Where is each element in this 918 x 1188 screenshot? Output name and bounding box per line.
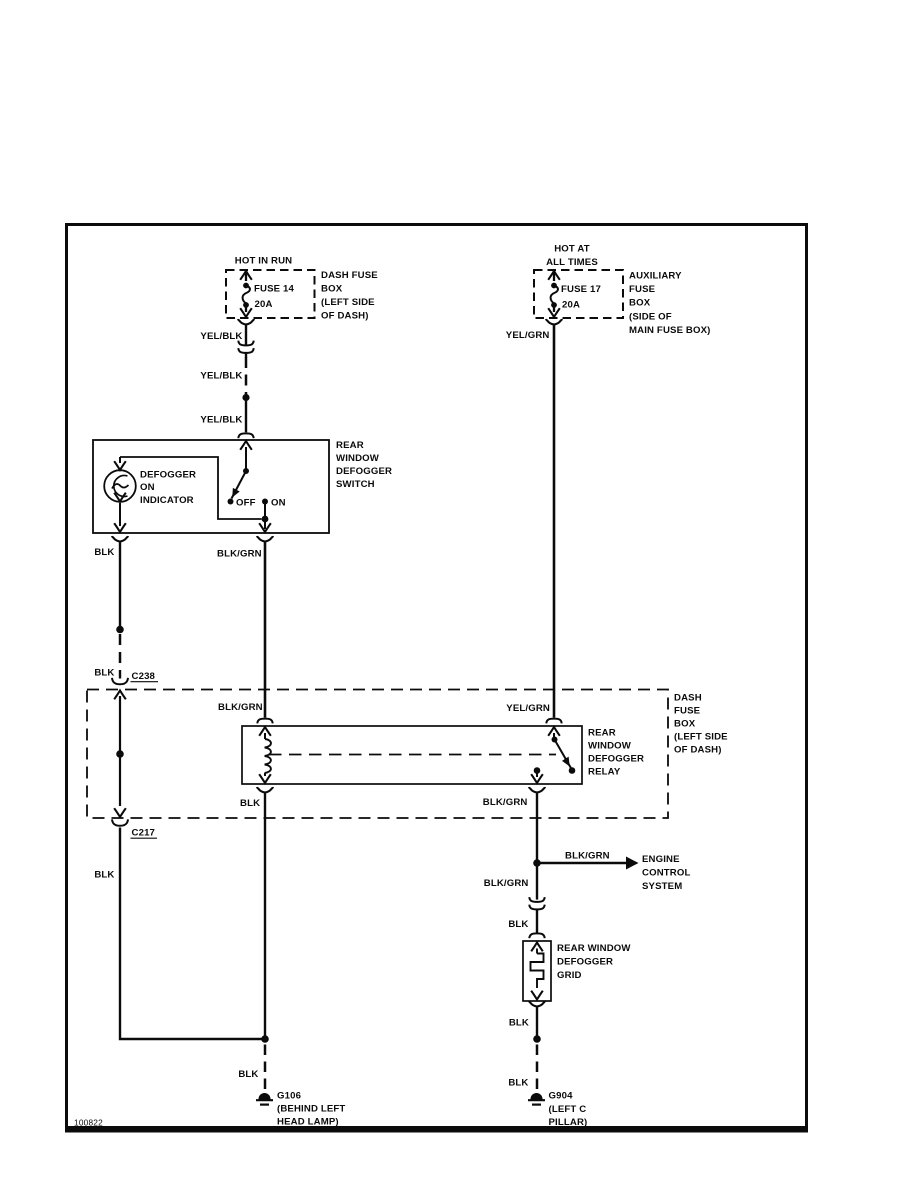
- svg-text:ENGINE: ENGINE: [642, 854, 680, 865]
- svg-text:CONTROL: CONTROL: [642, 868, 690, 879]
- fuse F14 symbol: [240, 271, 252, 317]
- svg-text:YEL/GRN: YEL/GRN: [506, 330, 550, 341]
- svg-text:C217: C217: [132, 828, 156, 839]
- connector at relay box top (switch side): [546, 719, 561, 724]
- wire BLK through dash fuse box: [114, 691, 126, 700]
- svg-text:BLK: BLK: [508, 1078, 528, 1089]
- wire into indicator: [119, 457, 121, 463]
- wire BLK/GRN from switch to relay: [264, 542, 267, 718]
- rear window defogger grid box: [523, 941, 551, 1001]
- wire BLK below grid: [536, 1007, 538, 1037]
- connector below relay (BLK/GRN): [529, 788, 546, 793]
- junction at G904 drop: [533, 1035, 541, 1043]
- svg-text:BLK: BLK: [94, 547, 114, 558]
- relay switch: [548, 727, 560, 736]
- svg-text:(LEFT SIDE: (LEFT SIDE: [321, 297, 375, 308]
- svg-text:DASH FUSE: DASH FUSE: [321, 270, 378, 281]
- fuse F17 symbol: [548, 271, 560, 317]
- svg-text:WINDOW: WINDOW: [588, 741, 632, 752]
- svg-text:C238: C238: [132, 671, 156, 682]
- svg-text:INDICATOR: INDICATOR: [140, 495, 194, 506]
- svg-text:RELAY: RELAY: [588, 767, 621, 778]
- svg-text:SYSTEM: SYSTEM: [642, 881, 682, 892]
- rear window defogger relay box: [242, 726, 582, 784]
- connector C217: [112, 819, 128, 825]
- svg-text:OF DASH): OF DASH): [321, 311, 369, 322]
- svg-text:DEFOGGER: DEFOGGER: [588, 754, 644, 765]
- svg-text:ALL TIMES: ALL TIMES: [546, 257, 598, 268]
- rear window defogger switch box: [93, 440, 329, 533]
- wire BLK to grid: [536, 910, 538, 933]
- svg-text:100822: 100822: [74, 1118, 103, 1128]
- wire YEL/BLK segment 1: [245, 324, 247, 345]
- junction to engine control: [533, 859, 541, 867]
- svg-text:FUSE: FUSE: [674, 706, 701, 717]
- connector below relay (coil BLK): [257, 788, 274, 793]
- svg-text:BOX: BOX: [321, 284, 343, 295]
- dash fuse box (left, dashed outline): [226, 270, 315, 318]
- svg-text:BLK/GRN: BLK/GRN: [217, 549, 262, 560]
- wire switch input arrow: [240, 441, 252, 450]
- connector at relay box top (coil side): [257, 719, 272, 724]
- connector below fuse box: [238, 320, 255, 325]
- svg-text:BOX: BOX: [674, 719, 696, 730]
- svg-text:OFF: OFF: [236, 498, 256, 509]
- svg-text:HOT AT: HOT AT: [554, 244, 590, 255]
- svg-text:BOX: BOX: [629, 298, 651, 309]
- svg-text:SWITCH: SWITCH: [336, 479, 375, 490]
- wire BLK/GRN continues down: [536, 866, 538, 900]
- connector at grid box top: [529, 933, 544, 938]
- wire BLK from relay coil down: [264, 793, 266, 1040]
- svg-text:(BEHIND LEFT: (BEHIND LEFT: [277, 1104, 345, 1115]
- lamp DEFOGGER ON INDICATOR: [104, 470, 136, 502]
- svg-text:BLK: BLK: [94, 668, 114, 679]
- junction with indicator branch: [262, 516, 269, 523]
- svg-text:DEFOGGER: DEFOGGER: [140, 470, 196, 481]
- svg-text:DEFOGGER: DEFOGGER: [557, 957, 613, 968]
- wire indicator output: [119, 503, 121, 526]
- ground G106: [256, 1094, 273, 1105]
- svg-text:BLK: BLK: [509, 1018, 529, 1029]
- page border frame: [67, 225, 807, 1130]
- svg-text:MAIN FUSE BOX): MAIN FUSE BOX): [629, 325, 711, 336]
- wire YEL/GRN long vertical: [553, 324, 556, 718]
- svg-text:(SIDE OF: (SIDE OF: [629, 312, 672, 323]
- dash fuse box (large dashed outline): [87, 690, 668, 819]
- svg-text:DASH: DASH: [674, 693, 702, 704]
- wire YEL/BLK segment 3: [245, 400, 247, 432]
- svg-text:REAR: REAR: [588, 728, 616, 739]
- relay coil: [259, 727, 271, 736]
- svg-text:HOT IN RUN: HOT IN RUN: [235, 256, 292, 267]
- svg-text:WINDOW: WINDOW: [336, 453, 380, 464]
- connector C238: [112, 678, 128, 684]
- connector below grid box: [529, 1002, 546, 1007]
- ground G904: [528, 1094, 545, 1105]
- inline connector pair: [238, 341, 253, 346]
- contact OFF: [228, 499, 234, 505]
- junction at G106 drop: [261, 1035, 269, 1043]
- svg-text:ON: ON: [271, 498, 286, 509]
- svg-text:FUSE 14: FUSE 14: [254, 284, 294, 295]
- svg-text:YEL/BLK: YEL/BLK: [200, 331, 242, 342]
- svg-text:YEL/BLK: YEL/BLK: [200, 371, 242, 382]
- svg-text:GRID: GRID: [557, 970, 582, 981]
- svg-text:(LEFT C: (LEFT C: [549, 1104, 587, 1115]
- svg-text:BLK: BLK: [240, 798, 260, 809]
- wire from ON contact down: [264, 504, 266, 529]
- connector below aux fuse box: [546, 320, 563, 325]
- svg-text:OF DASH): OF DASH): [674, 745, 722, 756]
- svg-text:BLK/GRN: BLK/GRN: [483, 797, 528, 808]
- svg-text:BLK/GRN: BLK/GRN: [565, 851, 610, 862]
- svg-text:FUSE: FUSE: [629, 284, 656, 295]
- svg-text:20A: 20A: [255, 299, 273, 310]
- svg-text:AUXILIARY: AUXILIARY: [629, 271, 682, 282]
- wire BLK from indicator down: [119, 542, 121, 627]
- svg-text:ON: ON: [140, 482, 155, 493]
- svg-text:HEAD LAMP): HEAD LAMP): [277, 1117, 339, 1128]
- inline connector pair: [529, 897, 544, 902]
- svg-text:BLK: BLK: [238, 1069, 258, 1080]
- relay mechanical link (dashed): [269, 754, 556, 756]
- wire BLK dashed to G106: [264, 1045, 267, 1090]
- switch pivot node: [243, 468, 249, 474]
- wire BLK/GRN branch to engine control system: [540, 862, 627, 864]
- switch arm (to OFF): [232, 471, 247, 499]
- svg-text:FUSE 17: FUSE 17: [561, 284, 601, 295]
- wire BLK/GRN from relay down: [536, 793, 538, 861]
- svg-text:20A: 20A: [562, 300, 580, 311]
- svg-text:BLK/GRN: BLK/GRN: [218, 702, 263, 713]
- svg-text:G106: G106: [277, 1091, 301, 1102]
- svg-text:BLK: BLK: [94, 870, 114, 881]
- connector at switch box top: [238, 433, 253, 438]
- svg-text:BLK/GRN: BLK/GRN: [484, 878, 529, 889]
- contact ON: [262, 499, 268, 505]
- svg-text:BLK: BLK: [508, 919, 528, 930]
- svg-text:REAR WINDOW: REAR WINDOW: [557, 943, 631, 954]
- wire YEL/BLK segment 2 (dashed): [245, 357, 248, 394]
- relay output terminal: [534, 767, 541, 774]
- svg-text:YEL/BLK: YEL/BLK: [200, 415, 242, 426]
- wire BLK dashed to G904: [536, 1045, 539, 1090]
- splice node: [242, 394, 249, 401]
- grid element: [531, 943, 543, 952]
- wire BLK dashed to C238: [119, 634, 122, 670]
- connector below switch box (BLK): [112, 537, 129, 542]
- splice node: [116, 626, 124, 634]
- auxiliary fuse box (dashed outline): [534, 270, 623, 318]
- wire BLK left leg down and across: [120, 828, 265, 1040]
- connector below switch box (BLK/GRN): [257, 537, 274, 542]
- svg-text:YEL/GRN: YEL/GRN: [506, 703, 550, 714]
- svg-text:DEFOGGER: DEFOGGER: [336, 466, 392, 477]
- wire indicator branch (internal): [120, 457, 262, 519]
- svg-text:(LEFT SIDE: (LEFT SIDE: [674, 732, 728, 743]
- svg-text:G904: G904: [549, 1091, 574, 1102]
- svg-text:REAR: REAR: [336, 440, 364, 451]
